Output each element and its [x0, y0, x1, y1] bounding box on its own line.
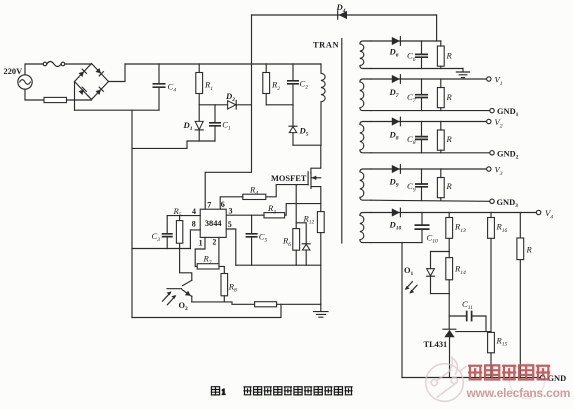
wire: VCC to pin 7: [205, 15, 251, 209]
svg-text:4: 4: [192, 207, 196, 216]
wire: node A to LED: [431, 251, 450, 253]
resistor R12: [317, 212, 324, 233]
bridge diode top-right: [95, 68, 103, 76]
diode D5 clamp: [292, 105, 294, 145]
terminal V1: [487, 77, 491, 81]
wire: DC- horizontal under bridge: [75, 109, 160, 111]
diode D1: [198, 105, 200, 141]
caption title: [243, 387, 352, 395]
svg-text:TRAN: TRAN: [313, 41, 339, 50]
wire: emitter/R8 bottom rail: [192, 302, 255, 304]
light arrows from O1: [406, 282, 413, 289]
svg-text:8: 8: [192, 220, 196, 229]
wire: top aux feed with D4: [252, 14, 437, 16]
bridge diode bottom-right: [95, 87, 103, 95]
svg-text:3844: 3844: [205, 219, 223, 228]
capacitor C6: [421, 41, 423, 69]
resistor R1: [198, 64, 200, 105]
wire: R7 right to R8 top: [219, 266, 224, 273]
wire: W3 top / V2 line: [371, 121, 486, 123]
capacitor C11: [449, 316, 486, 332]
capacitor C3: [166, 216, 168, 249]
wire: W4 top / V3 line: [371, 168, 486, 170]
terminal GND2: [490, 151, 494, 155]
zener D3: [296, 223, 306, 244]
diode D7: [392, 75, 400, 83]
resistor R8: [221, 274, 228, 296]
watermark text 电子发烧友: [468, 365, 550, 379]
resistor R5: [179, 216, 181, 249]
light arrows into O2: [163, 293, 171, 302]
resistor R13: [448, 213, 450, 252]
wire: W1 bottom: [371, 68, 463, 70]
bridge diode top-left: [78, 69, 86, 77]
resistor R14: [446, 258, 453, 280]
wire: R12 bottom to ground node: [320, 233, 322, 305]
bridge diode bottom-left: [78, 87, 86, 95]
svg-text:R: R: [446, 51, 453, 61]
capacitor C5: [251, 215, 253, 265]
diode D2: [228, 101, 236, 109]
resistor R (aux): [437, 46, 444, 66]
resistor R16: [490, 213, 492, 332]
svg-text:GND: GND: [548, 374, 567, 383]
wire: pin 2 down: [218, 237, 220, 266]
svg-text:6: 6: [221, 200, 225, 209]
wire: resistor to bridge bottom: [67, 99, 92, 101]
wire: W2 top / V1 line: [371, 78, 486, 80]
svg-text:R: R: [446, 181, 453, 191]
wire: local gnd horizontal: [236, 264, 321, 266]
secondary winding W4: [360, 169, 371, 200]
diode D8: [392, 117, 400, 125]
wire: node B to TL431 cathode: [448, 294, 450, 329]
TL431 U2: [443, 328, 456, 330]
terminal GND1: [490, 108, 494, 112]
LED O1 optocoupler: [430, 252, 432, 269]
wire: W4 bottom / GND3 line: [371, 200, 490, 201]
wire: V4 return long vertical: [401, 243, 403, 378]
svg-text:TL431: TL431: [424, 340, 448, 349]
capacitor C8: [421, 122, 423, 153]
wire: source bottom lead: [25, 89, 44, 100]
capacitor C1: [214, 105, 216, 141]
svg-text:3: 3: [229, 207, 233, 216]
svg-text:R: R: [446, 134, 453, 144]
capacitor C10: [421, 213, 423, 243]
wire: bridge left vertex down: [74, 82, 76, 111]
op-amp U1 3844 PWM controller: [200, 209, 226, 237]
wire: W3 bottom / GND2 line: [371, 152, 490, 154]
svg-text:R: R: [446, 92, 453, 102]
diode D10: [392, 208, 400, 216]
wire: primary bottom to MOSFET drain: [311, 145, 321, 173]
terminal GND3: [490, 199, 494, 203]
resistor R2: [265, 64, 267, 105]
resistor R (V2): [437, 130, 444, 150]
wire: W5 bottom: [371, 242, 422, 244]
resistor R (V3): [437, 178, 444, 198]
wire: DC- long vertical: [131, 110, 133, 317]
svg-text:2: 2: [212, 238, 216, 247]
resistor R7: [197, 264, 219, 269]
wire: R5 bottom to O2 collector: [180, 249, 192, 281]
diode D9: [392, 165, 400, 173]
wire: source top lead: [25, 64, 43, 75]
ground aux: [456, 69, 469, 78]
wire: bridge + output to rail: [109, 64, 126, 82]
wire: pin 1 to R7: [195, 237, 205, 266]
svg-text:R: R: [526, 244, 533, 254]
svg-text:220V: 220V: [4, 67, 23, 76]
svg-text:1: 1: [222, 388, 226, 397]
wire: aux drop from D4 line: [436, 15, 438, 41]
ground primary: [314, 304, 328, 317]
resistor R3: [264, 213, 285, 218]
wire: pin3 line: [226, 214, 264, 216]
terminal V3: [487, 167, 491, 171]
wire: D5 anode to drain node: [293, 144, 321, 146]
resistor R (V1): [437, 88, 444, 108]
svg-text:1: 1: [199, 239, 203, 248]
wire: sense line R3 to source: [285, 204, 321, 216]
secondary winding W5: [360, 213, 371, 243]
wire: gate lead: [266, 185, 308, 197]
terminal V4: [536, 210, 540, 214]
transistor O2 optocoupler phototransistor: [183, 280, 192, 285]
wire: W1 top: [371, 40, 441, 42]
secondary winding W1: [360, 41, 371, 68]
transistor Q1 MOSFET: [310, 173, 312, 188]
bridge rectifier B1: [75, 64, 109, 100]
watermark logo circle: [426, 358, 545, 402]
wire: pin 8: [190, 230, 200, 249]
svg-text:5: 5: [228, 220, 232, 229]
resistor R4: [243, 194, 266, 199]
capacitor C9: [421, 169, 423, 200]
wire: D1/C1 bottoms to DC-: [132, 141, 215, 148]
transformer primary winding: [321, 64, 325, 145]
wire: R1 bottom to VCC node: [199, 104, 251, 106]
wire: GND return line: [402, 377, 540, 379]
wire: pin6 to R4: [220, 197, 243, 209]
resistor (inrush limiter, unlabeled): [44, 97, 67, 102]
resistor R load: [519, 213, 521, 378]
fuse F1: [43, 62, 47, 66]
wire: R2 bottom to clamp node: [266, 104, 293, 106]
resistor (sense filter, unlabeled): [255, 302, 277, 307]
secondary winding W3: [360, 122, 371, 153]
wire: gate to R6 branch: [295, 185, 297, 229]
capacitor C2: [292, 64, 294, 105]
wire: pin5 to gnd wire: [226, 229, 236, 265]
wire: fuse to bridge top: [65, 63, 92, 65]
wire: pin 4 line: [167, 215, 200, 217]
capacitor C7: [421, 79, 423, 111]
wire: gnd return to DC-: [132, 248, 190, 250]
wire: DC- bottom return: [132, 304, 281, 317]
diode D6: [392, 37, 400, 45]
wire: W5 top / V4 line: [371, 212, 536, 214]
svg-text:www.elecfans.com: www.elecfans.com: [466, 386, 571, 400]
wire: TL431 ref to divider: [456, 331, 491, 333]
secondary winding W2: [360, 79, 371, 111]
AC source 220V: [18, 75, 32, 89]
wire: W2 bottom / GND1 line: [371, 110, 490, 112]
capacitor C4 bulk: [158, 64, 160, 110]
caption 图1: [211, 387, 225, 397]
svg-text:MOSFET: MOSFET: [271, 174, 307, 183]
transformer core: [341, 39, 343, 244]
diode D4: [337, 11, 339, 19]
wire: node B: [431, 293, 450, 295]
terminal GND: [540, 375, 544, 379]
resistor R6: [293, 229, 300, 251]
svg-text:7: 7: [207, 201, 211, 210]
terminal V2: [487, 119, 491, 123]
wire: DC+ rail: [125, 63, 321, 65]
wire: to ground node: [277, 303, 321, 305]
resistor R15: [488, 332, 495, 352]
